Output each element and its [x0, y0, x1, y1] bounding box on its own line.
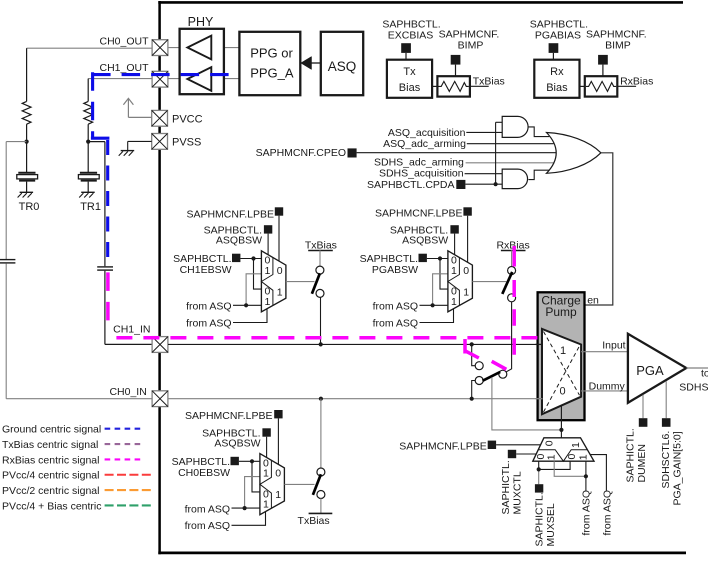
- wire bottom mux output: [560, 430, 562, 438]
- wire node B to TR1: [87, 142, 89, 173]
- svg-text:CH0_IN: CH0_IN: [109, 386, 146, 398]
- net CH1_IN wire: [168, 343, 538, 345]
- svg-text:Rx: Rx: [550, 66, 564, 78]
- label Dummy: [589, 380, 626, 392]
- svg-text:ASQ_adc_arming: ASQ_adc_arming: [383, 138, 466, 150]
- resistor R2: [84, 101, 93, 141]
- PPG block box: [239, 32, 300, 95]
- wire OR output to charge pump en: [585, 153, 613, 305]
- label SAPHICTL.MUXCTL: [500, 460, 524, 514]
- net TxBias terminal (CH0): [298, 513, 333, 527]
- net SDHS_acquisition: [379, 168, 502, 180]
- CP switch contact (CH1 side): [475, 362, 483, 370]
- label from ASQ (PGA mux b): [373, 317, 419, 329]
- wire from ASQ a to bottom mux: [554, 461, 586, 490]
- svg-text:PVcc/4 + Bias centric: PVcc/4 + Bias centric: [2, 500, 102, 512]
- label from ASQ (CH0 mux a): [185, 504, 231, 516]
- wire PGABIAS tap to Rx Bias: [552, 53, 554, 60]
- svg-text:ASQBSW: ASQBSW: [214, 438, 260, 450]
- svg-text:SDHS: SDHS: [679, 382, 708, 394]
- IC chip boundary (AFE box): [158, 1, 686, 554]
- svg-text:Ground centric signal: Ground centric signal: [2, 424, 101, 436]
- svg-text:MUXSEL: MUXSEL: [545, 503, 557, 546]
- wire SW3 to TxBias terminal: [320, 498, 322, 513]
- ground (TR0): [18, 192, 33, 197]
- svg-text:SAPHICTL.: SAPHICTL.: [625, 428, 637, 482]
- svg-text:1: 1: [265, 296, 271, 308]
- label to SDHS: [679, 368, 708, 394]
- switch SW1 contact top: [316, 266, 324, 274]
- signal path RxBias-centric (magenta dashed): [108, 246, 538, 369]
- wire node A to TR0: [26, 142, 28, 173]
- control tap SAPHMCNF.LPBE (bottom mux): [488, 441, 496, 449]
- svg-text:SAPHMCNF.LPBE: SAPHMCNF.LPBE: [375, 207, 463, 219]
- label CH0_OUT: [99, 35, 149, 47]
- label CH1_IN: [113, 323, 150, 335]
- svg-text:TR0: TR0: [19, 201, 40, 213]
- wire from ASQ a to CH0 mux in3: [232, 507, 260, 509]
- label SAPHBCTL.ASQBSW (CH0 mux): [202, 428, 260, 450]
- junction MUXSEL branch: [537, 467, 541, 471]
- svg-text:TxBias: TxBias: [298, 515, 330, 527]
- svg-text:TxBias: TxBias: [305, 240, 337, 252]
- svg-text:SAPHMCNF.LPBE: SAPHMCNF.LPBE: [399, 441, 487, 453]
- resistor RTx (boxed): [437, 76, 470, 96]
- switch SW1 lever: [312, 273, 320, 294]
- svg-text:1: 1: [263, 499, 269, 511]
- node A (R1/TR0/C1 junction): [25, 140, 29, 144]
- wire CH0EBSW branch to mux in2: [252, 461, 260, 492]
- signal path Ground-centric (blue dashed): [91, 72, 229, 263]
- wire PGA output: [686, 367, 708, 369]
- AND gate U1: [502, 116, 528, 137]
- label from ASQ (bottom mux b): [602, 490, 614, 536]
- svg-text:1: 1: [546, 454, 558, 460]
- wire PGABSW to mux in0: [427, 258, 448, 260]
- resistor R1: [22, 101, 31, 141]
- label SAPHBCTL.ASQBSW (PGA mux): [390, 225, 448, 247]
- svg-text:Pump: Pump: [545, 305, 577, 319]
- svg-text:0: 0: [277, 265, 283, 277]
- Rx Bias block box: [534, 60, 579, 98]
- label SAPHMCNF.BIMP (Rx): [586, 28, 647, 51]
- label SAPHBCTL.EXCBIAS: [382, 18, 440, 41]
- wire LPBE to PGA mux select: [467, 216, 469, 263]
- wire Rx Bias to RRx: [580, 85, 585, 87]
- label CP path 0: [559, 386, 565, 398]
- svg-text:1: 1: [451, 265, 457, 277]
- label CP path 1: [560, 345, 566, 357]
- label Charge Pump: [541, 294, 581, 319]
- wire TR1 to ground: [87, 182, 89, 193]
- svg-text:PGABIAS: PGABIAS: [535, 29, 581, 41]
- svg-text:TxBias centric signal: TxBias centric signal: [2, 439, 98, 451]
- svg-text:PGA_GAIN[5:0]: PGA_GAIN[5:0]: [672, 431, 684, 505]
- wire from ASQ b to PGA mux bottom: [420, 309, 454, 323]
- control tap SAPHICTL.MUXCTL: [508, 450, 516, 458]
- control tap SAPHBCTL.CH1EBSW: [232, 254, 240, 262]
- control tap SAPHMCNF.LPBE (CH0 mux): [274, 410, 282, 418]
- label SAPHBCTL.CH1EBSW: [173, 253, 231, 276]
- svg-text:ASQBSW: ASQBSW: [216, 235, 262, 247]
- amplifier A1 (CH1 driver): [187, 67, 211, 91]
- junction CH1_IN / TxBias switch: [319, 342, 323, 346]
- control tap SAPHBCTL.PGABSW: [419, 254, 427, 262]
- wire node A to C1: [6, 142, 26, 260]
- wire CH0_IN into charge pump: [536, 398, 543, 400]
- wire CP switch to bottom mux: [492, 377, 562, 430]
- wire CH1EBSW to mux in0: [240, 258, 261, 260]
- svg-text:from ASQ: from ASQ: [186, 301, 232, 313]
- svg-text:Input: Input: [602, 340, 625, 352]
- label SAPHMCNF.LPBE (PGA mux): [375, 207, 463, 219]
- wire CH0_IN to switch SW3: [320, 399, 322, 469]
- control tap SAPHMCNF.BIMP (Rx): [598, 55, 608, 65]
- label PPG or PPG_A: [250, 45, 294, 80]
- wire CH1 mux output to switch: [286, 281, 315, 283]
- svg-text:PVcc/4 centric signal: PVcc/4 centric signal: [2, 470, 99, 482]
- control tap SAPHBCTL.CH0EBSW: [231, 457, 239, 465]
- label SAPHBCTL.PGABSW: [360, 253, 418, 276]
- svg-text:RxBias: RxBias: [620, 75, 653, 87]
- capacitor C1: [0, 260, 15, 263]
- CP switch contact (common): [475, 377, 483, 385]
- svg-text:SAPHMCNF.LPBE: SAPHMCNF.LPBE: [185, 410, 273, 422]
- switch SW2 lever: [502, 272, 512, 294]
- svg-text:PVcc/2 centric signal: PVcc/2 centric signal: [2, 485, 99, 497]
- wire PGA mux output to switch SW2: [472, 281, 506, 283]
- label SAPHBCTL.ASQBSW (CH1 mux): [204, 225, 262, 247]
- pad CH0_IN: [152, 391, 168, 407]
- wire PGABSW branch to mux in2: [440, 259, 448, 290]
- wire Dummy (CP to PGA): [581, 390, 628, 392]
- svg-text:from ASQ: from ASQ: [186, 317, 232, 329]
- label TR0: [19, 201, 40, 213]
- svg-text:CH1EBSW: CH1EBSW: [180, 264, 232, 276]
- label SAPHMCNF.LPBE (CH0 mux): [185, 410, 273, 422]
- label from ASQ (CH0 mux b): [185, 520, 231, 532]
- svg-text:1: 1: [463, 286, 469, 298]
- AND gate U2: [502, 169, 527, 189]
- label TR1: [80, 201, 101, 213]
- label from ASQ (CH1 mux a): [186, 301, 232, 313]
- label CH0_IN: [109, 386, 146, 398]
- control tap SAPHBCTL.ASQBSW (CH1 mux): [264, 225, 272, 233]
- svg-text:0: 0: [559, 386, 565, 398]
- amplifier A0 (CH0 driver): [187, 36, 211, 60]
- svg-text:BIMP: BIMP: [458, 40, 484, 52]
- control tap SAPHMCNF.LPBE (PGA mux): [463, 207, 471, 215]
- svg-text:from ASQ: from ASQ: [373, 301, 419, 313]
- svg-text:ASQBSW: ASQBSW: [402, 235, 448, 247]
- switch SW3 contact top: [317, 468, 325, 476]
- junction from-ASQ branch (CH1 mux): [244, 303, 248, 307]
- svg-text:1: 1: [570, 442, 582, 448]
- control tap SAPHBCTL.CPDA: [456, 180, 465, 189]
- switch SW3 lever: [313, 474, 321, 495]
- net SDHS_adc_arming: [374, 157, 553, 169]
- switch SW2 contact bottom: [508, 294, 516, 302]
- wire CH1_IN into charge pump: [536, 343, 543, 345]
- wire from ASQ b to CH0 mux bottom: [232, 512, 266, 526]
- node B (R2/TR1/C2 junction): [86, 140, 90, 144]
- svg-text:TR1: TR1: [80, 201, 101, 213]
- svg-text:0: 0: [544, 440, 556, 446]
- wire SW2 down to CP switch: [506, 302, 511, 372]
- CP switch contact (Rx side): [499, 370, 507, 378]
- label CH1_OUT: [99, 62, 149, 74]
- wire Input (CP to PGA): [581, 351, 628, 353]
- svg-text:1: 1: [263, 468, 269, 480]
- control tap SDHSCTL6.PGA_GAIN: [662, 418, 671, 427]
- wire RxBias terminal to switch SW2: [511, 250, 513, 266]
- svg-text:PVCC: PVCC: [172, 113, 203, 125]
- control tap SAPHBCTL.EXCBIAS: [401, 43, 411, 53]
- svg-text:PGABSW: PGABSW: [372, 264, 418, 276]
- wire PGA to PGA_GAIN tap: [665, 381, 667, 418]
- ASQ block box: [321, 32, 363, 95]
- control tap SAPHMCNF.CPEO: [348, 148, 357, 157]
- wire CH1_IN to CP switch contact: [472, 344, 476, 365]
- label SAPHMCNF.LPBE (bottom mux): [399, 441, 487, 453]
- label SAPHMCNF.LPBE (CH1 mux): [186, 208, 274, 220]
- wire CH0EBSW to mux in0: [239, 460, 260, 462]
- junction from-ASQ branch (CH0 mux): [243, 506, 247, 510]
- label Rx Bias: [546, 66, 568, 94]
- label en: [587, 294, 599, 306]
- ground (PVSS): [119, 151, 135, 156]
- wire MUXCTL to bottom mux select: [516, 453, 536, 455]
- svg-text:DUMEN: DUMEN: [636, 444, 648, 483]
- svg-text:BIMP: BIMP: [605, 40, 631, 52]
- wire from ASQ b to bottom mux: [590, 455, 607, 491]
- wire CH1 row (pad to PPG): [168, 78, 239, 80]
- control tap SAPHBCTL.ASQBSW (CH0 mux): [262, 428, 270, 436]
- wire AND1 output to OR: [528, 127, 549, 137]
- label PGA: [636, 363, 664, 378]
- label SAPHICTL.DUMEN: [625, 428, 649, 482]
- OR gate U3: [547, 133, 601, 174]
- charge pump commutator (trapezoid with crossbars): [542, 329, 581, 414]
- wire CH0 mux output to switch SW3: [284, 483, 314, 485]
- label from ASQ (bottom mux a): [580, 490, 592, 536]
- svg-text:to: to: [701, 368, 708, 380]
- svg-text:RxBias centric signal: RxBias centric signal: [2, 454, 99, 466]
- wire ASQ to PPG with arrow: [301, 57, 321, 70]
- switch SW2 contact top: [508, 267, 516, 275]
- svg-text:Bias: Bias: [399, 82, 421, 94]
- wire SW1 to CH1_IN: [320, 297, 322, 344]
- net CH0_IN wire: [168, 398, 542, 400]
- junction from-ASQ branch (bottom mux): [584, 474, 588, 478]
- wire ASQ feed to CH0 mux in1: [245, 477, 260, 509]
- PVCC supply arrow: [123, 98, 151, 117]
- resistor RRx (boxed): [585, 76, 618, 96]
- wire ASQ feed to PGA mux in1: [433, 274, 448, 306]
- svg-text:from ASQ: from ASQ: [185, 504, 231, 516]
- wire Tx Bias to RTx: [432, 85, 437, 87]
- junction CH0_IN / CP switch: [470, 397, 474, 401]
- svg-text:Tx: Tx: [403, 66, 416, 78]
- svg-text:0: 0: [275, 468, 281, 480]
- multiplexer MUX4 (rotated): [533, 438, 594, 461]
- wire CP switch to CH0_IN: [472, 381, 476, 399]
- net TxBias (top): [470, 75, 505, 87]
- label SAPHBCTL.CPDA: [367, 179, 455, 191]
- net SAPHMCNF.CPEO wire: [357, 152, 557, 154]
- wire LPBE to CH1 mux select: [278, 216, 280, 262]
- wire PVSS to ground: [128, 141, 152, 150]
- svg-text:SDHS_acquisition: SDHS_acquisition: [379, 168, 464, 180]
- svg-text:CH0EBSW: CH0EBSW: [178, 467, 230, 479]
- svg-text:SAPHICTL.: SAPHICTL.: [500, 460, 512, 514]
- svg-text:from ASQ: from ASQ: [580, 490, 592, 536]
- transducer TR0: [17, 173, 38, 181]
- label PHY: [188, 15, 214, 29]
- wire MUXSEL to bottom mux: [539, 461, 570, 484]
- svg-text:Dummy: Dummy: [589, 380, 626, 392]
- junction CH1EBSW branch: [251, 256, 255, 260]
- svg-text:0: 0: [463, 265, 469, 277]
- Tx Bias block box: [387, 60, 432, 98]
- svg-text:from ASQ: from ASQ: [602, 490, 614, 536]
- svg-text:PGA: PGA: [636, 363, 664, 378]
- label ASQ: [328, 59, 357, 74]
- control tap SAPHMCNF.BIMP (Tx): [451, 55, 461, 65]
- label SAPHBCTL.CH0EBSW: [172, 456, 230, 479]
- net SAPHBCTL.CPDA wire: [465, 183, 502, 185]
- multiplexer MUX1 (CH1EBSW): [261, 251, 286, 312]
- wire TxBias terminal to switch SW1: [319, 250, 321, 266]
- svg-text:1: 1: [578, 454, 590, 460]
- transducer TR1: [78, 173, 99, 181]
- svg-text:1: 1: [275, 489, 281, 501]
- CP switch lever: [483, 372, 501, 381]
- wire CP bottom output: [560, 406, 562, 430]
- label SDHSCTL6.PGA_GAIN[5:0]: [660, 431, 684, 506]
- wire from ASQ a to PGA mux in3: [420, 304, 448, 306]
- wire TR0 to ground: [26, 182, 28, 193]
- control tap SAPHBCTL.PGABIAS: [549, 43, 559, 53]
- pad PVSS: [152, 134, 168, 150]
- label SAPHICTL.MUXSEL: [534, 492, 558, 546]
- svg-text:SAPHICTL.: SAPHICTL.: [534, 492, 546, 546]
- capacitor C2: [97, 267, 113, 270]
- wire from ASQ a to CH1 mux in3: [233, 304, 261, 306]
- ground (TR1): [79, 192, 95, 197]
- control tap SAPHICTL.DUMEN: [639, 418, 648, 427]
- pad CH0_OUT: [152, 40, 168, 56]
- label PVCC: [172, 113, 203, 125]
- junction CH0_IN / TxBias switch: [319, 397, 323, 401]
- pad CH1_IN: [152, 337, 168, 353]
- svg-text:CH1_OUT: CH1_OUT: [99, 62, 149, 74]
- svg-text:from ASQ: from ASQ: [373, 317, 419, 329]
- control tap SAPHICTL.MUXSEL: [535, 484, 543, 492]
- PGA amplifier: [628, 334, 686, 403]
- wire CPDA to AND1 input: [496, 122, 503, 184]
- label Tx Bias: [399, 66, 421, 94]
- wire C1 to CH0_IN: [6, 264, 152, 399]
- wire node B to C2: [88, 142, 105, 267]
- junction CH0EBSW branch: [250, 459, 254, 463]
- svg-text:CH0_OUT: CH0_OUT: [99, 35, 149, 47]
- wire from ASQ b to CH1 mux bottom: [233, 309, 267, 323]
- svg-text:SAPHMCNF.: SAPHMCNF.: [439, 28, 500, 40]
- junction PGABSW branch: [438, 256, 442, 260]
- svg-text:TxBias: TxBias: [473, 75, 505, 87]
- multiplexer MUX3 (CH0EBSW): [260, 454, 285, 515]
- junction from-ASQ branch (PGA mux): [431, 303, 435, 307]
- junction CP output / bottom mux: [559, 428, 563, 432]
- label PVSS: [172, 137, 201, 149]
- wire ASQBSW to CH0 mux select: [266, 437, 268, 458]
- net RxBias terminal: [496, 240, 529, 252]
- label SAPHMCNF.CPEO: [256, 147, 346, 159]
- svg-text:SAPHBCTL.CPDA: SAPHBCTL.CPDA: [367, 179, 455, 191]
- label from ASQ (PGA mux a): [373, 301, 419, 313]
- legend (signal color key): [2, 424, 151, 513]
- wire CH0 row (pad to PPG): [168, 47, 239, 49]
- switch SW1 contact bottom: [316, 289, 324, 297]
- svg-text:MUXCTL: MUXCTL: [511, 471, 523, 514]
- wire ASQ feed to CH1 mux in1: [246, 274, 261, 306]
- svg-text:SAPHMCNF.: SAPHMCNF.: [586, 28, 647, 40]
- switch SW3 contact bottom: [317, 491, 325, 499]
- multiplexer MUX2 (PGABSW): [448, 251, 473, 312]
- svg-text:en: en: [587, 294, 599, 306]
- wire BIMP tap to RRx: [602, 65, 604, 77]
- svg-text:PPG or: PPG or: [250, 45, 293, 60]
- wire AND2 output to OR: [528, 170, 549, 179]
- wire CH0_OUT pad to R1: [27, 48, 152, 101]
- svg-text:SAPHMCNF.CPEO: SAPHMCNF.CPEO: [256, 147, 346, 159]
- wire ASQBSW to PGA mux select: [454, 234, 456, 255]
- wire LPBE to CH0 mux select: [277, 418, 279, 464]
- wire ASQBSW to CH1 mux select: [267, 234, 269, 255]
- svg-text:0: 0: [566, 454, 578, 460]
- label from ASQ (CH1 mux b): [186, 317, 232, 329]
- svg-text:1: 1: [265, 265, 271, 277]
- wire CH1_OUT pad to R2: [88, 79, 152, 102]
- wire C2 to CH1_IN pad: [105, 271, 152, 345]
- svg-text:1: 1: [451, 296, 457, 308]
- charge pump block: [538, 292, 585, 420]
- svg-text:CH1_IN: CH1_IN: [113, 323, 150, 335]
- svg-text:ASQ_acquisition: ASQ_acquisition: [388, 127, 466, 139]
- wire BIMP tap to RTx: [455, 65, 457, 77]
- svg-text:PHY: PHY: [188, 15, 214, 29]
- svg-text:Bias: Bias: [546, 82, 568, 94]
- control tap SAPHBCTL.ASQBSW (PGA mux): [450, 225, 458, 233]
- junction (CPDA branch): [494, 182, 498, 186]
- net TxBias terminal (CH1): [305, 240, 337, 252]
- junction CH1_IN / CP switch: [470, 342, 474, 346]
- wire CH1EBSW branch to mux in2: [254, 259, 262, 290]
- svg-text:EXCBIAS: EXCBIAS: [388, 29, 434, 41]
- svg-text:from ASQ: from ASQ: [185, 520, 231, 532]
- svg-text:1: 1: [277, 286, 283, 298]
- wire PGA to DUMEN tap: [642, 395, 644, 418]
- wire LPBE to bottom mux select: [496, 444, 540, 446]
- svg-text:SAPHMCNF.LPBE: SAPHMCNF.LPBE: [186, 208, 274, 220]
- svg-text:PVSS: PVSS: [172, 137, 201, 149]
- label SAPHBCTL.PGABIAS: [530, 18, 588, 41]
- net ASQ_adc_arming: [383, 138, 553, 150]
- net ASQ_acquisition: [388, 127, 502, 139]
- control tap SAPHMCNF.LPBE (CH1 mux): [275, 207, 283, 215]
- svg-text:PPG_A: PPG_A: [250, 66, 294, 81]
